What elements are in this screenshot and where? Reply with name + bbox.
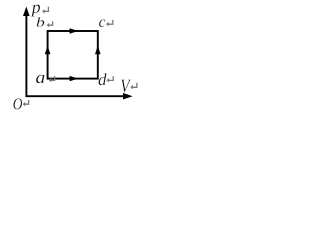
label a [36,75,44,83]
return mark after O [23,100,29,106]
label b [37,17,45,27]
arrow on top edge b->c (right) [70,28,79,33]
arrow on right edge d->c (up) [95,46,101,55]
arrow on bottom edge a->d (right) [70,76,79,81]
label O [13,98,22,109]
label d [99,73,107,85]
return marks (gray pilcrow arrows) [23,7,137,107]
return mark after V [130,83,137,90]
square cycle a-b-c-d [48,31,98,79]
return mark after a [49,76,55,82]
label c [99,20,105,27]
return mark after b [47,21,53,27]
label p [31,5,40,17]
return mark after p [42,7,48,14]
arrow on left edge a->b (up) [45,46,51,55]
V axis (horizontal) [26,93,133,100]
return mark after d [106,76,113,82]
return mark after c [106,20,113,27]
label V [121,80,131,93]
p axis (vertical) [23,7,30,97]
